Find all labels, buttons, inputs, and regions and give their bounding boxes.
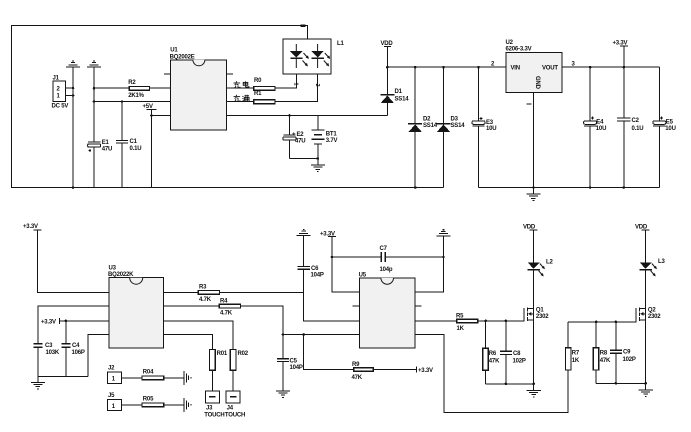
label charge CJK (drawn): [234, 81, 249, 88]
svg-text:4.7K: 4.7K: [220, 311, 233, 317]
label E2: [292, 132, 305, 145]
wire +5V vertical to rail: [151, 110, 153, 188]
svg-text:C7: C7: [380, 246, 388, 252]
svg-text:VDD: VDD: [635, 224, 648, 230]
capacitor C8: [500, 321, 512, 384]
regulator U2: [506, 53, 562, 93]
svg-text:R3: R3: [199, 285, 207, 291]
svg-text:U3: U3: [109, 266, 117, 272]
label R9: [352, 362, 363, 381]
wire C6 node to U5 pin3: [304, 292, 360, 321]
power VDD tick L3: [642, 229, 650, 231]
svg-text:L3: L3: [658, 259, 665, 265]
label C3: [45, 343, 60, 356]
node dot +3.3V rail: [623, 66, 626, 69]
wire U3 pin3 right to R02: [163, 321, 233, 350]
wire R05 to ground: [164, 404, 184, 406]
wire VDD to L2: [533, 230, 535, 263]
svg-text:2: 2: [314, 84, 320, 87]
ground U2 (down): [526, 188, 540, 202]
svg-text:R04: R04: [143, 370, 154, 376]
wire Q2 source down: [645, 320, 647, 390]
label J2: [108, 366, 116, 383]
label C8: [513, 351, 526, 365]
node dot C8 tap: [505, 320, 508, 323]
ground battery (down): [311, 159, 325, 173]
label R2: [128, 80, 144, 99]
LED L2: [527, 262, 545, 308]
power +3.3V tick right of R9: [415, 366, 417, 372]
capacitor C6: [297, 236, 310, 293]
LED L1b: [312, 44, 331, 68]
svg-text:3: 3: [572, 62, 576, 68]
node dot R2 tap: [93, 87, 96, 90]
svg-text:L2: L2: [546, 259, 553, 265]
node dot C9 bottom: [615, 382, 618, 385]
wire R3 to C6 node: [219, 291, 303, 293]
node dot C4 tap: [65, 320, 68, 323]
svg-text:+3.3V: +3.3V: [41, 319, 56, 325]
wire J2 to R04: [121, 377, 142, 379]
label full CJK (drawn): [234, 95, 250, 102]
wire R2 right to U1: [150, 87, 171, 89]
power +3.3V tick mid (U5): [328, 236, 336, 238]
svg-text:E4: E4: [596, 120, 604, 126]
svg-text:0.1U: 0.1U: [632, 126, 644, 132]
svg-text:102P: 102P: [623, 357, 636, 363]
svg-text:U2: U2: [506, 40, 514, 46]
svg-text:J5: J5: [108, 393, 115, 399]
svg-text:TOUCH: TOUCH: [225, 413, 245, 419]
svg-text:C4: C4: [72, 343, 80, 349]
capacitor E3: [472, 67, 485, 187]
wire gnd bottom horizontal: [38, 376, 88, 378]
node dot E2 tap: [288, 114, 291, 117]
label D1: [395, 89, 410, 103]
label R6: [489, 351, 500, 365]
capacitor C5: [277, 335, 289, 391]
label U2: [506, 40, 532, 53]
svg-text:R0: R0: [254, 78, 262, 84]
svg-text:3.7V: 3.7V: [326, 138, 338, 144]
resistor R04: [142, 376, 164, 380]
capacitor E2: [283, 116, 296, 159]
wire +5V top loop: [12, 26, 444, 188]
svg-text:C2: C2: [632, 118, 640, 124]
node dot C1 tap: [121, 100, 124, 103]
svg-text:D3: D3: [451, 117, 459, 123]
node dot Q1 source rail: [532, 383, 535, 386]
label R3: [199, 285, 212, 303]
resistor R6 vertical: [483, 321, 489, 384]
node dot +5V branch: [150, 114, 153, 117]
svg-text:47U: 47U: [102, 147, 112, 153]
svg-text:R05: R05: [143, 397, 154, 403]
resistor R05: [142, 403, 164, 407]
label J4: [225, 406, 245, 419]
label R7: [572, 350, 580, 364]
node dot D2 rail: [414, 186, 417, 189]
svg-text:R02: R02: [238, 351, 249, 357]
node dot E4 top: [589, 66, 592, 69]
resistor R02 vertical: [230, 350, 236, 371]
svg-text:6206-3.3V: 6206-3.3V: [506, 47, 532, 53]
node junction blob on top wire: [301, 25, 306, 27]
svg-text:2302: 2302: [648, 314, 661, 320]
wire C1 bottom to rail: [121, 143, 123, 187]
wire U1 pin3 right (full LED): [226, 101, 253, 103]
wire J5 to R05: [121, 404, 142, 406]
wire U1 pin2 right (charge LED): [226, 87, 253, 89]
touch pad J4: [226, 391, 240, 403]
svg-text:104P: 104P: [311, 272, 324, 278]
wire R0 to L1 pin1: [275, 74, 296, 88]
wire R7 top to gate wire: [567, 322, 569, 348]
wire U1 pin1 left stub: [164, 73, 171, 75]
svg-text:103K: 103K: [46, 350, 60, 356]
node dot C2 rail: [623, 186, 626, 189]
wire Q1 source down: [533, 320, 535, 391]
wire gnd vertical x94 (through E1): [93, 67, 95, 142]
resistor R3: [198, 291, 219, 295]
node dot C8 bottom: [505, 383, 508, 386]
node dot Q2 source rail: [644, 382, 647, 385]
svg-text:47K: 47K: [352, 375, 363, 381]
svg-text:2K1%: 2K1%: [128, 93, 144, 99]
ground GND1 (up) at x73: [66, 60, 80, 67]
wire R2 left: [94, 87, 129, 89]
svg-text:2302: 2302: [536, 314, 549, 320]
svg-text:1: 1: [293, 83, 299, 86]
wire +3.3V to U3 pin3: [60, 320, 109, 322]
svg-text:C8: C8: [513, 351, 521, 357]
ground C6 (up): [297, 229, 311, 236]
svg-text:102P: 102P: [513, 359, 526, 365]
capacitor E1: [88, 142, 101, 152]
svg-text:J1: J1: [53, 76, 60, 82]
wire Q1 source gnd rail: [486, 383, 534, 385]
svg-text:U1: U1: [170, 48, 178, 54]
resistor R2: [129, 86, 149, 90]
svg-text:+3.3V: +3.3V: [320, 231, 335, 237]
wire U5 pin2 left stub: [353, 305, 360, 307]
wire R4 to U5 pin4: [241, 306, 360, 334]
svg-text:TOUCH: TOUCH: [204, 413, 224, 419]
svg-text:R9: R9: [352, 362, 360, 368]
node dot D3 top: [442, 66, 445, 69]
label U1: [170, 48, 195, 61]
wire VDD to L3: [645, 230, 647, 263]
svg-text:R5: R5: [456, 313, 464, 319]
svg-text:BQ2002E: BQ2002E: [170, 54, 195, 60]
label R4: [220, 299, 233, 317]
wire gate2 horizontal: [568, 321, 636, 323]
node dot E3 top: [477, 66, 480, 69]
svg-text:104P: 104P: [290, 365, 303, 371]
svg-text:10U: 10U: [665, 126, 675, 132]
svg-text:+3.3V: +3.3V: [613, 41, 628, 47]
svg-text:106P: 106P: [72, 350, 85, 356]
wire U3 pin2 to C3 gnd branch: [38, 306, 109, 344]
svg-text:47U: 47U: [295, 139, 305, 145]
node dot J1 pin1: [72, 94, 75, 97]
node dot BT1 bottom: [317, 157, 320, 160]
svg-text:R2: R2: [128, 80, 136, 86]
LED L1a: [290, 44, 309, 68]
power VDD label tick top: [384, 45, 391, 47]
diode D3: [437, 67, 451, 187]
label D2: [423, 117, 438, 130]
svg-text:R4: R4: [220, 299, 228, 305]
svg-text:SS14: SS14: [395, 97, 410, 103]
LED module L1 box: [283, 39, 331, 74]
label C4: [72, 343, 85, 356]
svg-text:BT1: BT1: [326, 132, 338, 138]
svg-text:+3.3V: +3.3V: [23, 224, 38, 230]
wire E2 to BT1 bottom: [289, 158, 317, 160]
wire +3.3V vertical to C2: [623, 46, 625, 118]
label C7: [380, 246, 393, 273]
wire U1 pin3 from x94: [94, 101, 171, 103]
svg-text:C6: C6: [311, 266, 319, 272]
connector J5: [108, 399, 122, 410]
wire +3.3V to U5 pin1: [332, 237, 360, 292]
svg-text:1K: 1K: [457, 326, 465, 332]
diode D2: [408, 67, 422, 187]
node dot D2 top: [414, 66, 417, 69]
ground Q1 (down): [526, 390, 540, 397]
svg-text:J2: J2: [108, 366, 115, 372]
wire R02 to J4: [232, 370, 234, 391]
node dot J1 pin2: [72, 87, 75, 90]
ground C5 (down): [276, 391, 290, 398]
ground U5 (up): [436, 229, 450, 236]
diode D1: [380, 95, 394, 116]
op-amp U1 charge controller box: [171, 60, 227, 130]
op-amp U3 touch IC box: [109, 278, 163, 348]
svg-text:4.7K: 4.7K: [199, 297, 212, 303]
svg-text:2: 2: [491, 62, 495, 68]
resistor R0: [254, 86, 275, 90]
label C9: [623, 350, 636, 364]
svg-text:47K: 47K: [489, 359, 500, 365]
wire R1 to L1 pin2: [275, 74, 318, 102]
svg-text:Q1: Q1: [536, 307, 544, 313]
svg-text:J4: J4: [227, 406, 234, 412]
svg-text:104p: 104p: [380, 267, 393, 273]
pin 1 rotated tick U2: [527, 103, 532, 105]
wire +5V to U1 pin4: [152, 115, 171, 117]
wire U2 GND pin to rail: [532, 93, 534, 188]
power +3.3V tick top right: [620, 45, 628, 47]
wire +3.3V to U3 pin1: [37, 230, 109, 292]
svg-text:SS14: SS14: [451, 123, 466, 129]
resistor R7 vertical: [565, 348, 571, 370]
wire U2 VOUT to output caps: [562, 66, 659, 68]
wire R9 to +3.3V: [373, 368, 416, 370]
capacitor C4: [61, 321, 70, 377]
wire U5 pin3 right to R5: [415, 320, 457, 322]
resistor R8 vertical: [593, 322, 599, 384]
svg-text:C1: C1: [130, 139, 138, 145]
resistor R1: [254, 100, 275, 104]
resistor R4: [219, 304, 240, 308]
label E3: [486, 120, 496, 132]
wire C1 top: [121, 102, 123, 141]
node dot R6 tap: [484, 320, 487, 323]
ground J2 (right): [184, 371, 192, 385]
svg-text:0.1U: 0.1U: [130, 146, 142, 152]
svg-text:D1: D1: [395, 89, 403, 95]
label Q1: [536, 307, 549, 320]
resistor R01 vertical: [210, 350, 216, 371]
label E4: [596, 120, 606, 133]
connector J2: [108, 372, 122, 383]
node dot E4 rail: [589, 186, 592, 189]
wire R01 to J3: [211, 370, 213, 391]
wire U3 pin2 right to R4: [163, 305, 219, 307]
svg-text:J3: J3: [206, 406, 213, 412]
power +5V tick: [147, 109, 157, 111]
ground GND2 (up) at x94: [87, 60, 101, 67]
label C1: [130, 139, 142, 152]
ground U3 (down): [31, 377, 45, 390]
svg-text:Q2: Q2: [648, 307, 656, 313]
capacitor C3: [33, 344, 42, 377]
node dot R8 tap: [595, 321, 598, 324]
wire U5 pin2 right stub: [415, 305, 422, 307]
svg-text:SS14: SS14: [423, 123, 438, 129]
svg-text:E2: E2: [297, 132, 305, 138]
svg-text:+5V: +5V: [143, 104, 153, 110]
wire U3 pin4 to gnd: [88, 335, 109, 377]
svg-text:R01: R01: [217, 351, 228, 357]
svg-text:VOUT: VOUT: [542, 66, 558, 72]
wire VDD vertical to D1: [386, 46, 388, 95]
node dot C7 right: [442, 256, 445, 259]
node dot C9 tap: [615, 321, 618, 324]
node dot x73 on rail: [72, 186, 75, 189]
wire U3 pin1 right to R3: [163, 291, 198, 293]
node dot C7 left: [331, 256, 334, 259]
svg-text:C3: C3: [45, 343, 53, 349]
capacitor E5: [653, 67, 666, 187]
svg-text:R8: R8: [600, 350, 608, 356]
node dot C5 tap: [282, 333, 285, 336]
svg-text:D2: D2: [423, 117, 431, 123]
ground J5 (right): [184, 398, 192, 412]
wire U5 pin4 right long route: [415, 335, 568, 413]
svg-text:R7: R7: [572, 350, 580, 356]
svg-text:E1: E1: [102, 140, 110, 146]
wire U3 pin4 right to R01: [163, 335, 212, 350]
wire E1 bottom to rail: [93, 147, 95, 188]
svg-text:C5: C5: [290, 358, 298, 364]
battery BT1: [311, 116, 324, 159]
power +3.3V tick mid-left: [59, 318, 61, 324]
wire Q2 source gnd rail: [596, 382, 646, 384]
capacitor C2: [617, 118, 630, 187]
svg-text:E5: E5: [666, 120, 674, 126]
label J1: [52, 76, 69, 110]
node dot R9 tap: [302, 333, 305, 336]
label E5: [665, 120, 675, 133]
wire U5 pin1 right to ground: [415, 236, 444, 292]
ground Q2 (down): [638, 390, 652, 397]
op-amp U5 driver IC box: [360, 278, 415, 348]
wire VDD horizontal to U2 VIN: [387, 66, 506, 68]
svg-text:BQ2022K: BQ2022K: [108, 272, 134, 278]
connector J1: [53, 81, 73, 101]
svg-text:10U: 10U: [486, 126, 496, 132]
node dot U2 gnd rail: [532, 186, 535, 189]
svg-text:GND: GND: [534, 76, 540, 90]
svg-text:1K: 1K: [572, 358, 580, 364]
label E1: [102, 140, 112, 153]
svg-text:47K: 47K: [600, 358, 611, 364]
wire gnd vertical x73: [72, 67, 74, 187]
LED L3: [639, 262, 657, 308]
capacitor C1: [116, 141, 128, 144]
wire R9 drop: [304, 335, 354, 370]
power VDD tick L2: [530, 229, 538, 231]
svg-text:L1: L1: [337, 41, 344, 47]
svg-text:U5: U5: [359, 273, 367, 279]
capacitor C9: [610, 322, 622, 384]
label C6: [311, 266, 324, 279]
capacitor E4: [584, 67, 597, 187]
label BT1: [326, 132, 338, 145]
svg-text:R6: R6: [489, 351, 497, 357]
label R5: [456, 313, 465, 332]
label C2: [632, 118, 644, 132]
label Q2: [648, 307, 661, 320]
svg-text:+3.3V: +3.3V: [418, 368, 433, 374]
svg-text:VIN: VIN: [511, 66, 520, 72]
node dot pin3 tap: [93, 100, 96, 103]
transistor Q2 MOSFET: [636, 308, 646, 323]
resistor R5: [457, 319, 478, 323]
transistor Q1 MOSFET: [524, 308, 534, 322]
wire GND rail right segment: [479, 187, 660, 189]
label J3: [204, 406, 224, 419]
touch pad J3: [205, 391, 219, 403]
label R8: [600, 350, 611, 364]
label C5: [290, 358, 303, 371]
svg-text:R1: R1: [254, 91, 262, 97]
wire U1 pin4 right to battery and D1: [226, 115, 387, 117]
power +3.3V tick bottom-left: [33, 229, 41, 231]
svg-text:DC 5V: DC 5V: [52, 104, 69, 110]
label U3: [108, 266, 134, 279]
node dot VDD rail: [386, 66, 389, 69]
wire R5 to Q1 gate: [478, 320, 524, 322]
label D3: [451, 117, 466, 130]
svg-text:VDD: VDD: [523, 224, 536, 230]
wire R04 to ground: [164, 377, 184, 379]
svg-text:C9: C9: [623, 350, 631, 356]
svg-text:10U: 10U: [596, 126, 606, 132]
wire U1 pin1 right stub: [226, 73, 233, 75]
svg-text:VDD: VDD: [381, 41, 394, 47]
resistor R9: [354, 368, 374, 372]
label J5: [108, 393, 116, 410]
capacitor C7 horizontal: [332, 252, 444, 262]
